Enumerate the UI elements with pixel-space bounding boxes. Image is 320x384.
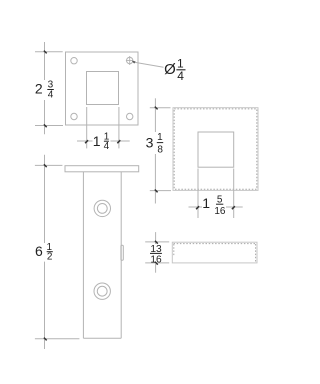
leader line to hole callout	[133, 62, 164, 67]
bar side view: solid outline	[172, 242, 257, 263]
post upper hole outer circle	[94, 200, 110, 216]
post upper hole inner circle	[97, 204, 107, 214]
dimension 2 3/4: fraction bar	[47, 89, 54, 91]
dimension 6 1/2: fraction bar	[47, 251, 53, 253]
svg-text:Ø: Ø	[164, 61, 176, 78]
dimension 2 3/4: extension line top	[35, 51, 63, 53]
dimension 1 1/4: dimension line left part	[77, 140, 93, 142]
dimension 1 1/4: tick left	[85, 140, 88, 143]
dimension 1 1/4: dimension line right part	[111, 140, 130, 142]
bar side view: hidden dashed line under top edge	[174, 243, 257, 245]
center mark vertical line	[129, 56, 131, 65]
dimension 3 1/8: dimension line upper part	[154, 98, 156, 132]
dimension 1 5/16: tick left	[196, 206, 199, 209]
dimension 1 1/4: extension line right	[118, 107, 120, 148]
dimension 2 3/4: dimension line upper part	[44, 42, 46, 80]
dimension 2 3/4: dimension line lower part	[44, 100, 46, 134]
side view square: hidden (dashed) outline	[174, 109, 257, 189]
post elevation: post body right edge	[120, 172, 122, 338]
dimension 1 5/16: fraction bar	[216, 203, 223, 205]
bolt hole top-right (with center mark)	[127, 57, 133, 63]
dimension 1 1/4: fraction bar	[104, 140, 109, 142]
dimension 2 3/4: extension line bottom	[35, 125, 63, 127]
svg-text:16: 16	[150, 254, 162, 265]
dimension 6 1/2: dimension line lower part	[44, 262, 46, 349]
dimension 3 1/8: dimension line lower part	[154, 154, 156, 204]
dimension 13/16: extension line top	[145, 241, 169, 243]
side view square: solid outline	[173, 108, 258, 191]
dimension 6 1/2: tick top	[44, 164, 47, 167]
bar side view: hidden dashed line inside left edge	[173, 244, 175, 256]
dimension 3 1/8: extension line top	[150, 107, 171, 109]
svg-text:6: 6	[35, 243, 43, 259]
dimension 13/16: extension line bottom	[145, 262, 169, 264]
dimension 6 1/2: extension line bottom	[35, 338, 80, 340]
bolt hole bottom-left	[71, 113, 77, 119]
flange top view: outer square	[66, 52, 139, 125]
svg-text:16: 16	[214, 206, 226, 217]
dimension 6 1/2: extension line top	[35, 164, 63, 166]
dimension 13/16: fraction bar	[150, 252, 162, 254]
svg-text:1: 1	[93, 133, 101, 149]
dimension 6 1/2: dimension line upper part	[44, 155, 46, 243]
dimension 1 1/4: extension line left	[86, 107, 88, 148]
side view: center square hole	[198, 132, 234, 167]
flange top view: center square hole	[87, 72, 119, 105]
svg-text:8: 8	[157, 145, 163, 156]
svg-text:1: 1	[157, 132, 163, 143]
svg-text:4: 4	[177, 69, 184, 83]
center mark horizontal line	[126, 60, 134, 62]
post elevation: post body left edge	[82, 172, 84, 338]
dimension 13/16: tick top	[155, 241, 158, 244]
svg-text:2: 2	[47, 252, 53, 263]
dimension 3 1/8: extension line bottom	[150, 190, 171, 192]
dimension 1 5/16: dimension line right part	[226, 206, 243, 208]
dimension 13/16: dimension line upper part	[155, 232, 157, 244]
svg-text:5: 5	[217, 194, 223, 205]
dimension 1 5/16: dimension line left part	[189, 206, 203, 208]
svg-text:2: 2	[35, 81, 43, 97]
svg-text:3: 3	[146, 134, 154, 150]
dimension 3 1/8: tick bottom	[155, 190, 158, 193]
dimension 3 1/8: tick top	[155, 107, 158, 110]
dimension 6 1/2: tick bottom	[44, 338, 47, 341]
post elevation: post bottom edge	[83, 337, 121, 339]
svg-text:4: 4	[104, 141, 110, 152]
dimension 2 3/4: tick top	[44, 51, 47, 54]
dimension 13/16: dimension line lower part	[155, 264, 157, 273]
dimension 3 1/8: fraction bar	[157, 142, 163, 144]
side tab on post right edge	[121, 245, 123, 260]
post lower hole inner circle	[97, 286, 107, 296]
dimension 1 5/16: extension line left	[197, 169, 199, 219]
bolt hole bottom-right	[127, 113, 133, 119]
leader arrowhead	[132, 61, 136, 64]
dimension 1 5/16: extension line right	[233, 169, 235, 219]
dimension 2 3/4: tick bottom	[44, 124, 47, 127]
bolt hole top-left	[71, 58, 77, 64]
bar side view: hidden dashed line inside right edge	[255, 244, 257, 262]
svg-text:4: 4	[48, 89, 54, 100]
dimension 13/16: tick bottom	[155, 262, 158, 265]
dimension 1 1/4: tick right	[117, 140, 120, 143]
svg-text:1: 1	[202, 195, 210, 211]
post lower hole outer circle	[94, 283, 110, 299]
callout fraction bar	[176, 69, 185, 71]
post elevation: top plate	[65, 166, 139, 172]
dimension 1 5/16: tick right	[232, 206, 235, 209]
